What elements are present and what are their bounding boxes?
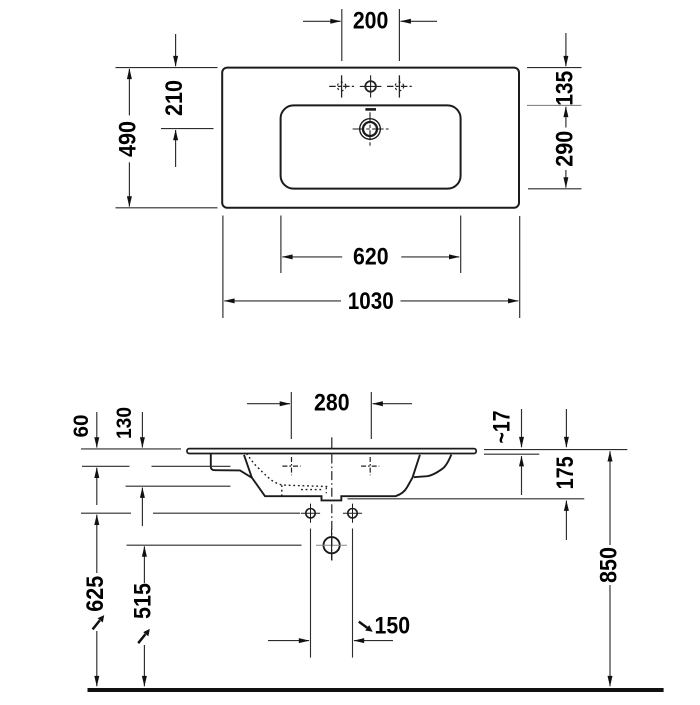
svg-text:60: 60: [70, 415, 93, 438]
dimension 60: [96, 412, 98, 505]
svg-text:1030: 1030: [348, 288, 394, 315]
dimension 515: [143, 546, 145, 686]
svg-text:135: 135: [551, 71, 578, 106]
dimension 280: [247, 392, 412, 439]
dimension 200: [303, 9, 437, 61]
svg-text:210: 210: [161, 80, 188, 116]
dimension 620: [281, 216, 461, 274]
svg-text:490: 490: [115, 121, 142, 157]
faucet hole right (dashed): [387, 75, 412, 97]
dimension 1030: [223, 216, 520, 319]
foreshorten symbol 515: [138, 629, 150, 643]
left level extension lines: [81, 448, 181, 450]
dimension 850: [609, 451, 611, 686]
overflow slot tick: [365, 108, 376, 111]
dimension 130: [141, 412, 143, 526]
dimension 150: [268, 640, 393, 642]
faucet hole left (dashed): [329, 75, 354, 97]
dimension ~17: [521, 409, 523, 495]
bowl inner outline: [281, 105, 461, 188]
dimension 135 and 290: [527, 33, 582, 189]
right outer contour: [414, 455, 452, 478]
right level extension lines: [484, 449, 627, 451]
basin body outer profile: [211, 454, 420, 501]
faucet hole center: [360, 75, 382, 97]
drain outlet circle: [316, 529, 347, 561]
dimension 625: [96, 515, 98, 687]
svg-text:~17: ~17: [488, 411, 515, 444]
fixing holes level extension line: [81, 512, 131, 514]
dimension 490: [116, 68, 218, 208]
svg-text:175: 175: [552, 456, 579, 489]
floor line: [88, 688, 664, 692]
countertop slab: [187, 449, 476, 454]
faucet mark left (section): [282, 457, 300, 475]
svg-text:290: 290: [551, 131, 578, 167]
basin outer outline: [222, 68, 519, 208]
svg-text:130: 130: [113, 407, 136, 439]
foreshorten symbol 625: [93, 615, 105, 629]
fixing hole left: [301, 504, 320, 523]
svg-text:625: 625: [82, 576, 109, 612]
dimension 210: [161, 34, 214, 167]
drain level extension line: [127, 544, 302, 546]
hidden bowl surface (dotted): [246, 453, 329, 486]
svg-text:515: 515: [130, 583, 157, 619]
extension lines down from fixing holes: [310, 529, 312, 658]
drain with overflow circles: [353, 112, 389, 145]
svg-text:280: 280: [314, 389, 350, 416]
svg-text:200: 200: [353, 8, 389, 35]
fixing hole right: [343, 504, 362, 523]
svg-text:850: 850: [596, 547, 623, 583]
svg-text:150: 150: [375, 613, 411, 640]
bowl inner-left wall: [244, 455, 252, 478]
center axis (dash-dot): [331, 437, 333, 449]
hidden drain lines (dotted): [281, 485, 283, 495]
foreshorten symbol 150: [359, 622, 373, 632]
faucet mark right (section): [361, 457, 379, 475]
dimension 175: [565, 409, 567, 540]
svg-text:620: 620: [353, 243, 389, 270]
